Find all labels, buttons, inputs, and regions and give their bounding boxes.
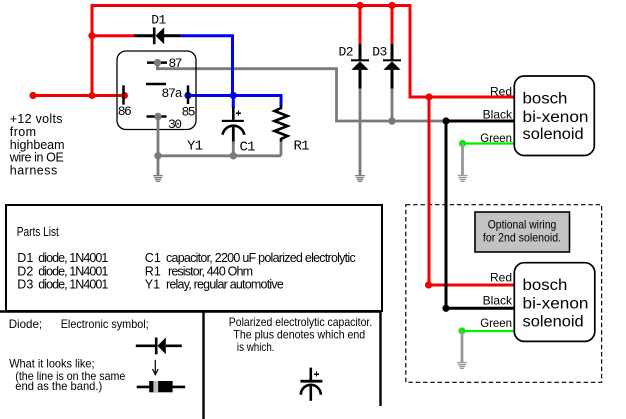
svg-text:bosch: bosch (523, 277, 568, 294)
wire D2 drop red (359, 6, 362, 45)
node red tee (425, 93, 432, 100)
wire pin30 gray drop (157, 117, 160, 176)
wire red to solenoid2 (429, 284, 515, 287)
node D1 tap (88, 32, 95, 39)
node gray C1 bottom (230, 152, 237, 159)
pin 30 tick (147, 115, 167, 118)
optional wiring label box (475, 212, 570, 252)
diode D1 (134, 27, 180, 44)
svg-text:capacitor, 2200 uF polarized e: capacitor, 2200 uF polarized electrolyti… (166, 251, 356, 265)
physical diode example (137, 381, 185, 392)
wire +12V top bus (red) (92, 6, 410, 98)
solenoid box 1 (514, 76, 594, 156)
svg-text:Red: Red (490, 271, 512, 285)
svg-text:D3: D3 (17, 278, 33, 292)
label +12 volts note (9, 112, 65, 178)
divider vertical center (202, 312, 204, 419)
svg-text:C1: C1 (145, 251, 161, 265)
wire black to solenoid1 (446, 120, 514, 123)
svg-text:bi-xenon: bi-xenon (523, 295, 589, 312)
divider horizontal bottom (0, 310, 381, 312)
node pin30 (gray) (154, 113, 161, 120)
svg-text:diode, 1N4001: diode, 1N4001 (38, 264, 108, 278)
svg-text:wire in OE: wire in OE (9, 151, 64, 165)
node red corner 2 (425, 281, 432, 288)
arrow down (153, 360, 159, 375)
relay Y1 outline (117, 51, 196, 130)
wire gray drop green1 (461, 144, 464, 176)
svg-text:is which.: is which. (237, 340, 275, 354)
svg-text:R1: R1 (145, 264, 161, 278)
node green 2 (458, 327, 465, 334)
node D3 gray junction (388, 117, 395, 124)
wire stub to D1 (92, 34, 134, 37)
svg-text:Green: Green (480, 131, 512, 145)
svg-text:R1: R1 (294, 139, 310, 155)
svg-text:D2: D2 (339, 45, 354, 60)
wire +12V feed horizontal (33, 94, 126, 97)
node black junction 2 (442, 305, 449, 312)
dashed box optional wiring (406, 205, 602, 383)
svg-text:87: 87 (169, 56, 183, 71)
diode example symbol (136, 338, 182, 355)
svg-text:D1: D1 (17, 251, 33, 265)
svg-text:diode, 1N4001: diode, 1N4001 (38, 251, 108, 265)
capacitor C1 (222, 107, 245, 142)
node pin85 (blue) (184, 92, 191, 99)
svg-text:Parts List: Parts List (17, 225, 59, 239)
svg-text:solenoid: solenoid (523, 126, 584, 143)
svg-text:Y1: Y1 (145, 278, 160, 292)
parts list box (6, 205, 382, 311)
svg-text:Electronic symbol;: Electronic symbol; (61, 317, 149, 331)
wire black to solenoid2 (446, 307, 514, 310)
node green 1 (459, 140, 466, 147)
ground (D2) (355, 176, 365, 182)
svg-text:D3: D3 (372, 45, 387, 60)
ground (solenoid1) (458, 176, 468, 182)
diode D2 (351, 44, 369, 89)
svg-text:resistor, 440 Ohm: resistor, 440 Ohm (168, 264, 253, 278)
node junction riser (88, 92, 95, 99)
wire C1 lower stem gray (232, 142, 235, 156)
svg-text:end as the band.): end as the band.) (15, 379, 102, 393)
svg-text:harness: harness (10, 164, 57, 178)
svg-text:+12 volts: +12 volts (10, 112, 63, 126)
wire gray bottom bus (158, 154, 281, 157)
svg-text:highbeam: highbeam (10, 138, 65, 152)
wire D3 drop red (391, 6, 394, 45)
svg-text:C1: C1 (240, 140, 256, 156)
node gray junction pin30 (154, 152, 161, 159)
node D3 tap (388, 2, 395, 9)
node black junction 1 (442, 117, 449, 124)
wire black drop to solenoid2 (445, 121, 448, 308)
capacitor example symbol (300, 368, 322, 401)
wire gray drop green2 (461, 331, 464, 363)
node C1 tap (blue) (230, 92, 237, 99)
svg-text:Black: Black (483, 293, 513, 307)
svg-text:87a: 87a (162, 86, 183, 101)
svg-text:solenoid: solenoid (523, 313, 584, 330)
pin 85 tick (187, 85, 190, 104)
resistor R1 (275, 105, 288, 142)
svg-text:bi-xenon: bi-xenon (523, 109, 589, 126)
node relay pin86 (121, 92, 128, 99)
ground (solenoid2) (457, 363, 467, 369)
svg-text:Diode;: Diode; (9, 317, 42, 331)
wire green to solenoid2 (462, 330, 514, 332)
node pin87 (gray) (154, 59, 161, 66)
svg-text:85: 85 (182, 105, 196, 120)
pin 87 tick (147, 61, 167, 64)
svg-text:Black: Black (483, 107, 513, 121)
wire green to solenoid1 (463, 142, 515, 144)
pin 87a tick (146, 83, 166, 86)
ground (relay) (153, 176, 163, 182)
svg-text:Y1: Y1 (187, 139, 203, 155)
svg-text:Green: Green (480, 316, 512, 330)
diode D3 (383, 44, 401, 89)
wire D2 gray drop to ground (359, 89, 362, 176)
svg-text:for 2nd solenoid.: for 2nd solenoid. (483, 231, 561, 245)
svg-text:bosch: bosch (523, 90, 568, 107)
pin 86 tick (122, 85, 125, 104)
svg-text:Red: Red (490, 85, 512, 99)
wire blue net from D1 to pin85/C1/R1 (180, 36, 281, 108)
divider right edge lower (379, 311, 381, 406)
wire R1 bottom gray (280, 142, 283, 156)
wire red to solenoid1 (409, 96, 515, 99)
svg-text:D1: D1 (151, 13, 166, 28)
svg-text:diode, 1N4001: diode, 1N4001 (38, 278, 108, 292)
parts rows (17, 251, 355, 292)
solenoid box 2 (514, 263, 595, 342)
svg-text:86: 86 (118, 104, 132, 119)
node D2 tap (356, 2, 363, 9)
node +12V endpoint (29, 92, 36, 99)
svg-text:relay, regular automotive: relay, regular automotive (166, 278, 284, 292)
svg-text:Optional wiring: Optional wiring (488, 218, 557, 232)
svg-text:D2: D2 (17, 264, 33, 278)
wire red drop to solenoid2 (428, 97, 431, 285)
wire D3 gray drop (391, 89, 394, 121)
svg-text:30: 30 (168, 117, 182, 132)
svg-text:from: from (10, 125, 36, 139)
wire pin87 gray net to black junction (158, 63, 447, 121)
